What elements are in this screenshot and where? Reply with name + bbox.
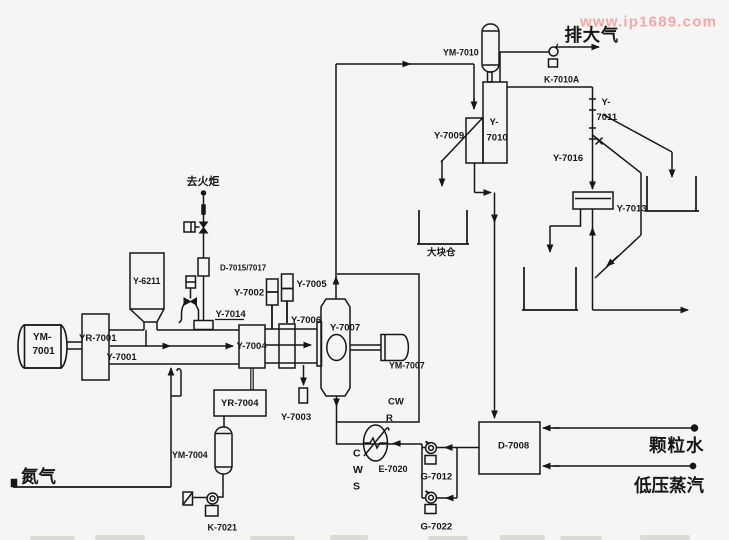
svg-text:R: R (386, 413, 393, 424)
svg-text:YM-7007: YM-7007 (389, 361, 425, 371)
svg-text:氮气: 氮气 (21, 467, 56, 487)
svg-text:YM-7010: YM-7010 (443, 48, 479, 58)
svg-text:G-7022: G-7022 (421, 522, 453, 533)
svg-text:Y-7013: Y-7013 (617, 204, 647, 215)
svg-text:Y-: Y- (490, 117, 499, 128)
svg-text:大块仓: 大块仓 (427, 247, 456, 259)
svg-text:7001: 7001 (33, 346, 56, 357)
svg-text:Y-7005: Y-7005 (297, 279, 328, 290)
svg-text:YM-7004: YM-7004 (172, 450, 208, 460)
svg-text:Y-7009: Y-7009 (434, 131, 464, 142)
svg-text:Y-7006: Y-7006 (291, 315, 321, 326)
svg-text:YR-7004: YR-7004 (221, 398, 259, 409)
svg-text:7011: 7011 (597, 112, 618, 123)
svg-text:K-7021: K-7021 (208, 523, 238, 533)
svg-text:CW: CW (388, 397, 404, 408)
svg-text:Y-7016: Y-7016 (553, 153, 583, 164)
svg-text:Y-7003: Y-7003 (281, 412, 311, 423)
svg-text:www.ip1689.com: www.ip1689.com (579, 14, 717, 31)
svg-text:D-7015/7017: D-7015/7017 (220, 264, 267, 273)
svg-text:C: C (353, 448, 361, 460)
svg-text:7010: 7010 (487, 133, 508, 144)
svg-text:Y-6211: Y-6211 (133, 276, 161, 286)
svg-text:K-7010A: K-7010A (544, 75, 580, 85)
svg-text:Y-7007: Y-7007 (330, 323, 360, 334)
svg-text:G-7012: G-7012 (421, 472, 453, 483)
svg-text:低压蒸汽: 低压蒸汽 (633, 476, 704, 496)
svg-text:颗粒水: 颗粒水 (649, 436, 705, 456)
svg-text:Y-7004: Y-7004 (237, 341, 268, 352)
svg-text:YR-7001: YR-7001 (79, 333, 117, 344)
svg-text:D-7008: D-7008 (498, 441, 529, 452)
svg-text:Y-: Y- (602, 97, 611, 108)
svg-text:去火炬: 去火炬 (187, 174, 220, 188)
svg-text:YM-: YM- (33, 332, 51, 343)
svg-text:Y-7001: Y-7001 (107, 352, 138, 363)
svg-text:W: W (353, 464, 363, 476)
svg-text:Y-7002: Y-7002 (234, 288, 264, 299)
svg-text:E-7020: E-7020 (379, 464, 408, 474)
svg-text:S: S (353, 481, 360, 493)
svg-text:Y-7014: Y-7014 (216, 309, 247, 320)
